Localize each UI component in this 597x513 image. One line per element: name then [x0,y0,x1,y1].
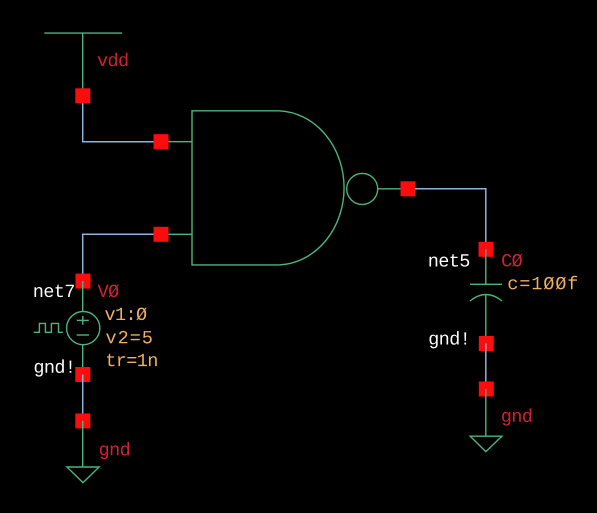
pin square: C0 bottom pin [479,336,494,351]
label gnd right [502,408,531,425]
pin square: vdd pin [75,88,90,103]
capacitor C0 [470,249,502,343]
ground symbol left [67,421,99,483]
label gnd! left [35,359,72,376]
wire net7: NAND input B to source [83,234,161,281]
label C0 [502,254,522,267]
label gnd left [100,442,129,459]
value c=100f [508,276,577,290]
value v1:0 [105,307,146,320]
square wave icon [34,323,63,332]
pin square: gnd pin left [75,413,90,428]
pin square: C0 top pin [479,242,494,257]
wire source to gnd left [82,375,84,421]
ground symbol right [470,389,502,452]
value v2=5 [106,331,152,344]
value tr=1n [107,354,157,366]
wire stub: NAND input A [161,141,192,143]
pin square: NAND input A [154,134,169,149]
nand gate U0 body [192,111,344,265]
pin square: source plus pin [76,274,91,289]
wire stub: NAND output [378,188,401,190]
label V0 [98,284,119,297]
label vdd [98,53,128,67]
pin square: source minus pin [75,367,90,382]
wire C0 to gnd right [485,344,487,390]
label gnd! right [429,331,466,348]
vdd supply symbol [44,33,122,96]
pin square: NAND output [401,181,416,196]
pin square: gnd pin right [479,382,494,397]
voltage source V0 [67,281,100,374]
pin square: NAND input B [154,227,169,242]
nand gate output bubble [347,173,378,204]
label net7 [34,285,74,298]
wire stub: NAND input B [161,233,192,235]
wire vdd pin to NAND input A [83,96,161,142]
wire net5: output to C0 [415,189,486,250]
label net5 [429,254,469,267]
